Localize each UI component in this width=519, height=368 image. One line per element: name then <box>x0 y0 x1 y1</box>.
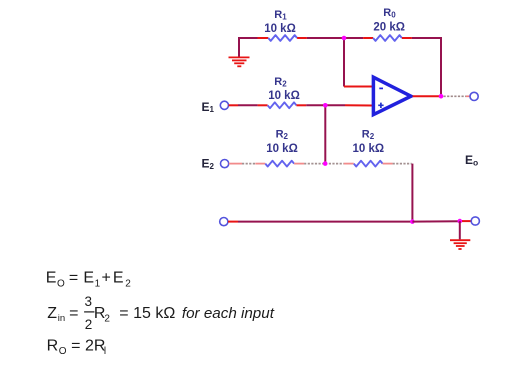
wire top row left (ground corner to R1) <box>239 38 268 57</box>
resistor R1 <box>268 35 307 41</box>
svg-text:2: 2 <box>85 317 93 332</box>
node E junction dot <box>410 219 415 224</box>
op-amp U1 <box>373 77 411 114</box>
wire node B to noninverting input <box>325 104 372 106</box>
wire op-amp output to node D <box>413 95 441 97</box>
wire node C to R2c <box>325 163 354 165</box>
svg-text:E: E <box>46 270 57 287</box>
node C junction dot <box>323 161 328 166</box>
svg-text:=: = <box>69 305 78 322</box>
svg-text:in: in <box>58 313 65 324</box>
resistor R2 (E1 row) <box>268 102 307 108</box>
wire E2 to R2b <box>229 163 265 165</box>
wire node A down to inverting input <box>344 38 372 87</box>
svg-text:O: O <box>59 346 67 357</box>
equation line 3: Ro = 2R1 <box>47 337 107 357</box>
wire bottom rail <box>228 221 412 223</box>
svg-text:+: + <box>102 270 111 287</box>
terminal E1 <box>220 101 228 109</box>
fraction bar <box>84 311 94 313</box>
node F junction dot <box>458 219 463 224</box>
wire node E to node F <box>412 220 459 222</box>
svg-text:3: 3 <box>84 294 92 309</box>
svg-text:2: 2 <box>104 314 110 325</box>
terminal E2 <box>221 160 229 168</box>
terminal bottom-right <box>471 217 479 225</box>
svg-text:E: E <box>113 270 124 287</box>
wire node B down to node C <box>324 105 326 163</box>
equation line 1: Eo = E1 + E2 <box>46 270 132 290</box>
svg-text:10 kΩ: 10 kΩ <box>266 143 298 155</box>
wire R2c to corner <box>393 163 412 165</box>
wire R0 to output corner <box>412 38 441 96</box>
svg-text:20 kΩ: 20 kΩ <box>373 22 405 34</box>
node A junction dot <box>342 36 347 41</box>
equation line 2: Zin = 3/2 R2 = 15 kOhm <box>47 294 274 332</box>
svg-text:Z: Z <box>47 305 57 322</box>
svg-text:E: E <box>83 270 94 287</box>
wire R2a to node B <box>306 104 325 106</box>
svg-text:2: 2 <box>125 278 131 289</box>
svg-text:=: = <box>69 270 78 287</box>
ground (bottom-right) <box>450 240 470 249</box>
resistor R2 (E2 row left) <box>265 161 304 167</box>
svg-text:=: = <box>71 337 80 354</box>
resistor R2 (E2 row right) <box>354 161 393 167</box>
svg-text:10 kΩ: 10 kΩ <box>264 23 296 35</box>
resistor R0 <box>373 35 412 41</box>
svg-text:for each input: for each input <box>182 305 275 322</box>
wire corner down to node E <box>411 164 413 222</box>
node D junction dot <box>439 94 444 99</box>
svg-text:l: l <box>104 346 106 357</box>
svg-text:10 kΩ: 10 kΩ <box>268 90 300 102</box>
wire node F to bottom-right terminal <box>460 220 471 222</box>
terminal bottom-left <box>220 218 228 226</box>
node B junction dot <box>323 103 328 108</box>
output terminal (top right) <box>470 92 478 100</box>
wire R2b to node C <box>304 163 325 165</box>
ground (top-left) <box>229 57 250 66</box>
wire node A to R0 <box>344 37 373 39</box>
svg-text:R: R <box>47 337 59 354</box>
svg-text:1: 1 <box>95 278 101 289</box>
svg-text:10 kΩ: 10 kΩ <box>352 143 384 155</box>
wire R1 to node A <box>307 37 344 39</box>
svg-text:= 15 kΩ: = 15 kΩ <box>119 305 175 322</box>
svg-text:O: O <box>57 278 65 289</box>
wire node F down to ground <box>459 221 461 239</box>
svg-text:2R: 2R <box>85 337 105 354</box>
wire E1 to R2a <box>229 104 268 106</box>
wire node D to output terminal <box>444 95 471 97</box>
